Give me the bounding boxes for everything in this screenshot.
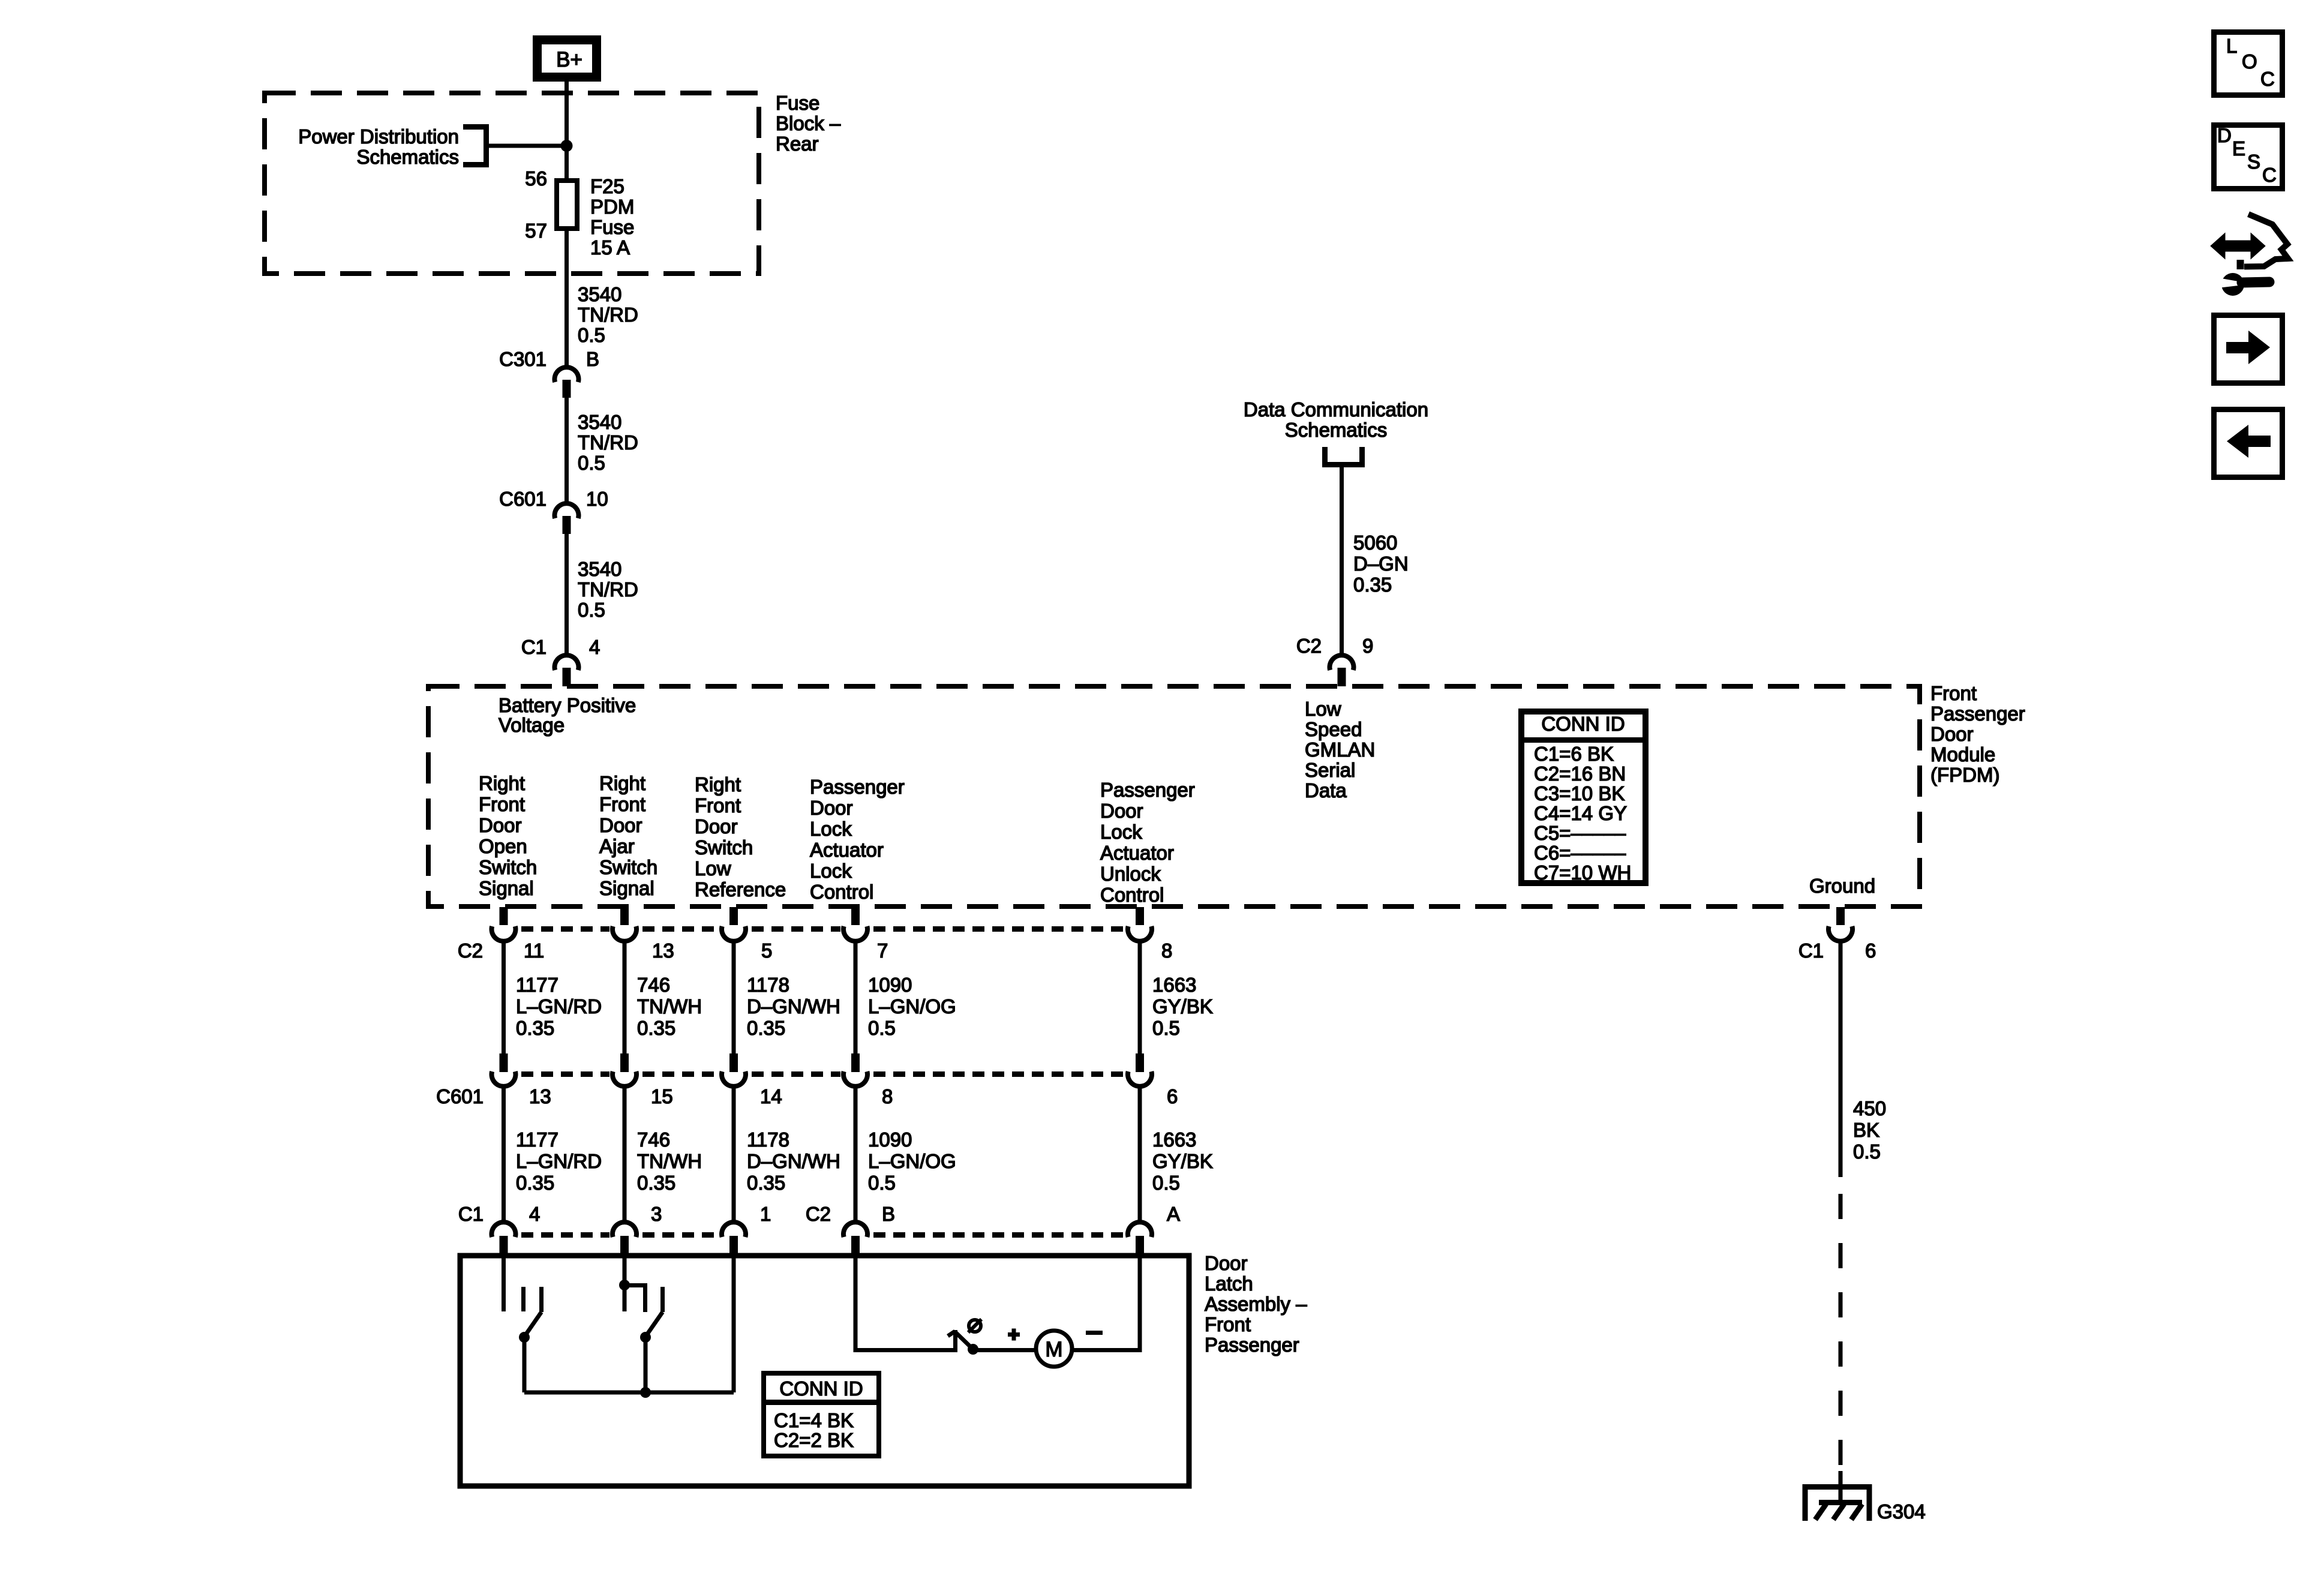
svg-text:8: 8 (882, 1085, 893, 1107)
svg-text:BK: BK (1853, 1119, 1879, 1141)
actuator direction symbol (circle with slash) (968, 1319, 981, 1332)
svg-text:3: 3 (651, 1203, 662, 1225)
svg-text:PDM: PDM (590, 196, 634, 218)
svg-text:Data Communication: Data Communication (1244, 398, 1428, 421)
door open switch blade (524, 1312, 542, 1337)
svg-text:Unlock: Unlock (1100, 863, 1161, 885)
wire label 746 TN/WH 0.35 (2) (637, 1128, 702, 1194)
svg-text:3540: 3540 (578, 283, 621, 305)
wire label 3540 TN/RD 0.5 (segment 2) (578, 411, 638, 474)
connector C2 pin A (latch) (1128, 1222, 1152, 1256)
svg-text:L–GN/RD: L–GN/RD (516, 995, 602, 1017)
connector C601 pin 8 (843, 1053, 867, 1086)
svg-text:Latch: Latch (1205, 1272, 1253, 1295)
svg-text:C1=4 BK: C1=4 BK (774, 1409, 854, 1431)
svg-text:C2=2 BK: C2=2 BK (774, 1429, 854, 1451)
svg-text:Low: Low (695, 857, 731, 879)
svg-text:(FPDM): (FPDM) (1930, 764, 1999, 786)
svg-text:TN/RD: TN/RD (578, 431, 638, 454)
svg-text:1177: 1177 (516, 1128, 559, 1151)
svg-text:Open: Open (479, 835, 527, 857)
svg-text:14: 14 (760, 1085, 782, 1107)
label Fuse Block - Rear (776, 92, 841, 155)
svg-text:Low: Low (1305, 698, 1341, 720)
connector C2 pin 5 (722, 907, 746, 941)
label Power Distribution Schematics (298, 125, 459, 168)
svg-text:C5=–––––: C5=––––– (1534, 822, 1626, 844)
connector C1 pin 3 (latch) (612, 1222, 636, 1256)
svg-text:C1=6 BK: C1=6 BK (1534, 743, 1614, 765)
connector C1 pin 4 at FPDM (555, 655, 579, 686)
svg-text:450: 450 (1853, 1097, 1886, 1119)
svg-text:L–GN/RD: L–GN/RD (516, 1150, 602, 1172)
svg-text:Right: Right (695, 773, 741, 795)
actuator switch rest tick (948, 1331, 955, 1336)
svg-text:O: O (2242, 50, 2257, 73)
svg-text:D: D (2217, 124, 2232, 146)
actuator switch contact bar (953, 1330, 957, 1352)
connector C601 pin 14 (722, 1053, 746, 1086)
svg-text:Switch: Switch (479, 856, 537, 878)
icon DESC button (2214, 124, 2283, 189)
wire label 1663 GY/BK 0.5 (2) (1152, 1128, 1213, 1194)
svg-text:0.5: 0.5 (578, 324, 605, 346)
svg-text:S: S (2247, 151, 2260, 173)
svg-text:Actuator: Actuator (810, 839, 884, 861)
lock actuator feed wire from pin B (855, 1256, 953, 1350)
svg-text:Rear: Rear (776, 133, 819, 155)
svg-text:Front: Front (695, 794, 741, 816)
wire 746 TN/WH segment 1 (623, 941, 627, 1055)
svg-text:Fuse: Fuse (590, 216, 634, 238)
svg-text:TN/WH: TN/WH (637, 1150, 702, 1172)
switch common bus wire (524, 1391, 734, 1395)
connector C601 pin 15 (612, 1053, 636, 1086)
svg-text:0.35: 0.35 (1353, 574, 1392, 596)
svg-text:Reference: Reference (695, 878, 786, 900)
connector C2 pin 7 (843, 907, 867, 941)
wire label 1090 L-GN/OG 0.5 (2) (868, 1128, 956, 1194)
svg-text:5: 5 (761, 939, 772, 962)
svg-text:1663: 1663 (1152, 974, 1196, 996)
wire label 746 TN/WH 0.35 (637, 974, 702, 1039)
svg-text:Serial: Serial (1305, 759, 1355, 781)
wire C301 to C601 (565, 398, 569, 503)
svg-text:C: C (2262, 164, 2277, 186)
svg-text:C3=10 BK: C3=10 BK (1534, 782, 1625, 804)
svg-text:Lock: Lock (1100, 821, 1142, 843)
svg-text:C7=10 WH: C7=10 WH (1534, 861, 1631, 884)
svg-text:B: B (586, 348, 599, 370)
wire label 1177 L-GN/RD 0.35 (516, 974, 602, 1039)
actuator switch pivot dot (968, 1344, 978, 1355)
wire label 1178 D-GN/WH 0.35 (2) (747, 1128, 840, 1194)
svg-text:Front: Front (479, 793, 525, 815)
label plus (1008, 1329, 1020, 1341)
wire 1177 L-GN/RD segment 1 (502, 941, 506, 1055)
CONN ID table (latch) (761, 1373, 881, 1456)
svg-text:Battery Positive: Battery Positive (499, 694, 636, 716)
svg-text:0.35: 0.35 (747, 1017, 785, 1039)
svg-text:Door: Door (1100, 800, 1143, 822)
svg-text:0.5: 0.5 (578, 452, 605, 474)
connector C601 pin 6 (1128, 1053, 1152, 1086)
wire 1663 GY/BK segment 1 (1138, 941, 1142, 1055)
svg-text:0.35: 0.35 (747, 1172, 785, 1194)
svg-text:Fuse: Fuse (776, 92, 819, 114)
wire 1178 D-GN/WH segment 2 (732, 1086, 736, 1223)
svg-text:Module: Module (1930, 743, 1995, 766)
svg-text:C1: C1 (1798, 939, 1824, 962)
wire label 3540 TN/RD 0.5 (segment 1) (578, 283, 638, 346)
wire 746 TN/WH segment 2 (623, 1086, 627, 1223)
svg-text:1178: 1178 (747, 1128, 789, 1151)
wire label 450 BK 0.5 (1853, 1097, 1886, 1163)
icon LOC button (2214, 32, 2283, 95)
wire C601 to C1 (565, 534, 569, 655)
door ajar switch junction dot (619, 1280, 630, 1290)
svg-text:CONN ID: CONN ID (779, 1377, 863, 1400)
svg-text:Ajar: Ajar (599, 835, 635, 857)
svg-text:0.5: 0.5 (578, 599, 605, 621)
svg-text:10: 10 (586, 488, 608, 510)
door ajar switch pivot dot (640, 1332, 651, 1343)
svg-text:6: 6 (1167, 1085, 1178, 1107)
connector C301 pin B (in-line) (555, 367, 579, 398)
svg-text:1090: 1090 (868, 1128, 912, 1151)
svg-text:C: C (2260, 68, 2275, 90)
door open switch pivot dot (519, 1332, 530, 1343)
svg-text:1: 1 (760, 1203, 771, 1225)
icon back arrow button (2214, 410, 2283, 478)
svg-text:Actuator: Actuator (1100, 842, 1174, 864)
svg-text:C1: C1 (458, 1203, 484, 1225)
svg-text:Schematics: Schematics (356, 146, 459, 168)
svg-text:0.35: 0.35 (637, 1017, 675, 1039)
svg-text:L–GN/OG: L–GN/OG (868, 995, 956, 1017)
svg-text:6: 6 (1865, 939, 1876, 962)
connector C1 pin 1 (latch) (722, 1222, 746, 1256)
svg-text:8: 8 (1161, 939, 1172, 962)
svg-text:4: 4 (529, 1203, 540, 1225)
wire label 5060 D-GN 0.35 (1353, 532, 1409, 596)
svg-text:Switch: Switch (695, 836, 753, 858)
door ajar switch hook contact (624, 1286, 645, 1313)
svg-text:B: B (882, 1203, 895, 1225)
label Data Communication Schematics (1244, 398, 1428, 441)
Door Latch Assembly box (460, 1256, 1189, 1486)
svg-text:Passenger: Passenger (1205, 1334, 1299, 1356)
ground G304 symbol (1805, 1471, 1869, 1521)
svg-text:Door: Door (695, 815, 738, 837)
svg-text:L: L (2226, 35, 2237, 57)
B+ terminal box (538, 40, 597, 77)
door ajar switch lower wire (644, 1337, 648, 1392)
svg-text:Lock: Lock (810, 818, 852, 840)
ground wire dashed segment (1839, 1194, 1843, 1476)
svg-text:Door: Door (599, 814, 642, 836)
svg-text:Passenger: Passenger (1930, 703, 2025, 725)
wire 1177 L-GN/RD segment 2 (502, 1086, 506, 1223)
door open switch contacts (524, 1287, 542, 1312)
svg-text:13: 13 (652, 939, 674, 962)
label F25 PDM Fuse 15 A (590, 175, 634, 259)
svg-text:Front: Front (1205, 1313, 1251, 1335)
Fuse Block - Rear dashed box (265, 93, 759, 274)
wire 1090 L-GN/OG segment 2 (854, 1086, 858, 1223)
connector C2 pin 8 (1128, 907, 1152, 941)
wire 1178 D-GN/WH segment 1 (732, 941, 736, 1055)
wire 1663 GY/BK segment 2 (1138, 1086, 1142, 1223)
svg-text:0.35: 0.35 (637, 1172, 675, 1194)
wire branch to power distribution bracket (486, 144, 566, 148)
svg-text:Schematics: Schematics (1285, 419, 1388, 441)
svg-text:GY/BK: GY/BK (1152, 1150, 1213, 1172)
svg-text:3540: 3540 (578, 558, 621, 580)
svg-text:Control: Control (1100, 884, 1164, 906)
svg-text:C4=14 GY: C4=14 GY (1534, 802, 1627, 824)
svg-text:D–GN/WH: D–GN/WH (747, 995, 840, 1017)
svg-text:G304: G304 (1877, 1500, 1926, 1523)
svg-text:0.35: 0.35 (516, 1172, 554, 1194)
svg-text:Ground: Ground (1809, 875, 1875, 897)
connector C2 pin 9 at FPDM (1330, 655, 1354, 686)
svg-text:Passenger: Passenger (1100, 779, 1195, 801)
svg-text:4: 4 (589, 636, 600, 658)
svg-text:C301: C301 (499, 348, 547, 370)
label Passenger Door Lock Actuator Lock Control (810, 776, 905, 903)
svg-text:Door: Door (810, 797, 853, 819)
connector C2 dashed gang line (521, 926, 1125, 932)
svg-text:Door: Door (479, 814, 522, 836)
wire label 1178 D-GN/WH 0.35 (747, 974, 840, 1039)
svg-text:Right: Right (479, 772, 525, 794)
svg-text:M: M (1045, 1338, 1062, 1361)
icon service action (double arrow, outline, wrench) (2212, 214, 2288, 296)
fuse F25 PDM 15A (557, 181, 577, 229)
label Passenger Door Lock Actuator Unlock Control (1100, 779, 1195, 906)
connector C601 pin 10 (in-line) (555, 503, 579, 534)
connector C601 pin 13 (491, 1053, 515, 1086)
svg-text:Lock: Lock (810, 860, 852, 882)
CONN ID table (FPDM) (1518, 712, 1649, 884)
svg-text:5060: 5060 (1353, 532, 1397, 554)
svg-text:0.5: 0.5 (868, 1172, 896, 1194)
svg-text:7: 7 (877, 939, 888, 962)
svg-text:TN/RD: TN/RD (578, 578, 638, 601)
label Right Front Door Ajar Switch Signal (599, 772, 657, 899)
svg-text:Front: Front (1930, 682, 1977, 704)
svg-text:15: 15 (651, 1085, 673, 1107)
svg-text:9: 9 (1362, 635, 1373, 657)
svg-text:C6=–––––: C6=––––– (1534, 842, 1626, 864)
svg-text:Passenger: Passenger (810, 776, 905, 798)
svg-text:C601: C601 (436, 1085, 484, 1107)
door open switch: wire stub from pin 4 (502, 1256, 506, 1311)
connector C601 dashed gang line (521, 1071, 1125, 1077)
svg-text:Data: Data (1305, 779, 1347, 801)
svg-text:D–GN: D–GN (1353, 553, 1409, 575)
svg-text:F25: F25 (590, 175, 624, 197)
svg-text:Block –: Block – (776, 112, 841, 134)
svg-text:0.5: 0.5 (1853, 1140, 1881, 1163)
label Door Latch Assembly - Front Passenger (1205, 1252, 1307, 1356)
node junction dot at fuse block feed (561, 140, 573, 152)
low reference wire from pin 1 to bus (732, 1256, 736, 1392)
svg-text:Signal: Signal (599, 877, 654, 899)
svg-text:Control: Control (810, 881, 873, 903)
svg-text:C2: C2 (458, 939, 483, 962)
connector C1/C2 dashed gang line (521, 1232, 1125, 1238)
svg-text:D–GN/WH: D–GN/WH (747, 1150, 840, 1172)
svg-text:746: 746 (637, 974, 670, 996)
connector C2 pin 11 (491, 907, 515, 941)
Front Passenger Door Module dashed box (428, 686, 1920, 906)
svg-text:C2=16 BN: C2=16 BN (1534, 763, 1626, 785)
wire pivot to motor (973, 1348, 1034, 1352)
svg-text:C1: C1 (521, 636, 547, 658)
svg-text:A: A (1167, 1203, 1180, 1225)
wire label 3540 TN/RD 0.5 (segment 3) (578, 558, 638, 621)
svg-text:Front: Front (599, 793, 645, 815)
svg-text:1663: 1663 (1152, 1128, 1196, 1151)
svg-text:3540: 3540 (578, 411, 621, 433)
svg-text:0.35: 0.35 (516, 1017, 554, 1039)
svg-text:1177: 1177 (516, 974, 559, 996)
icon next arrow button (2214, 316, 2283, 383)
connector C1 pin 4 (latch) (491, 1222, 515, 1256)
svg-text:Assembly –: Assembly – (1205, 1293, 1307, 1315)
wire label 1177 L-GN/RD 0.35 (2) (516, 1128, 602, 1194)
label minus (1086, 1331, 1103, 1335)
svg-text:GMLAN: GMLAN (1305, 739, 1375, 761)
svg-text:TN/WH: TN/WH (637, 995, 702, 1017)
svg-text:Speed: Speed (1305, 718, 1362, 740)
svg-text:15 A: 15 A (590, 236, 630, 259)
wire motor to pin A (1072, 1256, 1140, 1350)
door ajar switch blade (645, 1312, 663, 1337)
svg-text:CONN ID: CONN ID (1541, 713, 1625, 735)
label Right Front Door Open Switch Signal (479, 772, 537, 899)
svg-text:C601: C601 (499, 488, 547, 510)
connector C1 pin 6 (ground) at FPDM (1828, 907, 1852, 941)
label Battery Positive Voltage (499, 694, 636, 736)
svg-text:GY/BK: GY/BK (1152, 995, 1213, 1017)
actuator switch blade (955, 1332, 973, 1349)
wire label 1663 GY/BK 0.5 (1152, 974, 1213, 1039)
wire 1090 L-GN/OG segment 1 (854, 941, 858, 1055)
svg-text:C2: C2 (1296, 635, 1322, 657)
svg-text:L–GN/OG: L–GN/OG (868, 1150, 956, 1172)
connector C2 pin B (latch) (843, 1222, 867, 1256)
motor M (1036, 1331, 1072, 1367)
svg-text:0.5: 0.5 (1152, 1017, 1180, 1039)
label Low Speed GMLAN Serial Data (1305, 698, 1375, 801)
svg-text:Switch: Switch (599, 856, 657, 878)
ground wire solid segment 450 BK (1839, 941, 1843, 1177)
door open switch lower wire (523, 1337, 527, 1392)
bracket to Power Distribution Schematics (463, 124, 489, 167)
wire fuse to C301 (565, 229, 569, 365)
svg-text:Door: Door (1930, 723, 1974, 745)
svg-text:Power Distribution: Power Distribution (298, 125, 459, 148)
svg-text:E: E (2232, 137, 2245, 160)
bus junction dot (640, 1387, 651, 1398)
svg-text:Voltage: Voltage (499, 714, 565, 736)
wire label 1090 L-GN/OG 0.5 (868, 974, 956, 1039)
wire serial data to C2 pin 9 (1340, 467, 1344, 654)
connector C2 pin 13 (612, 907, 636, 941)
bracket from Data Communication Schematics (1322, 447, 1365, 467)
svg-text:0.5: 0.5 (1152, 1172, 1180, 1194)
svg-text:B+: B+ (556, 48, 582, 71)
svg-text:C2: C2 (806, 1203, 831, 1225)
svg-text:11: 11 (524, 939, 544, 962)
svg-text:1090: 1090 (868, 974, 912, 996)
svg-text:57: 57 (525, 220, 547, 242)
label Right Front Door Switch Low Reference (695, 773, 786, 900)
svg-text:Right: Right (599, 772, 645, 794)
wire B+ to fuse (565, 82, 569, 181)
svg-text:Door: Door (1205, 1252, 1248, 1274)
svg-text:746: 746 (637, 1128, 670, 1151)
svg-text:1178: 1178 (747, 974, 789, 996)
svg-text:13: 13 (529, 1085, 551, 1107)
door ajar switch: wire stub from pin 3 (623, 1256, 627, 1311)
door ajar switch second contact (660, 1287, 665, 1312)
label Front Passenger Door Module (FPDM) (1930, 682, 2025, 786)
svg-text:TN/RD: TN/RD (578, 304, 638, 326)
svg-text:0.5: 0.5 (868, 1017, 896, 1039)
svg-text:56: 56 (525, 167, 547, 190)
svg-text:Signal: Signal (479, 877, 534, 899)
